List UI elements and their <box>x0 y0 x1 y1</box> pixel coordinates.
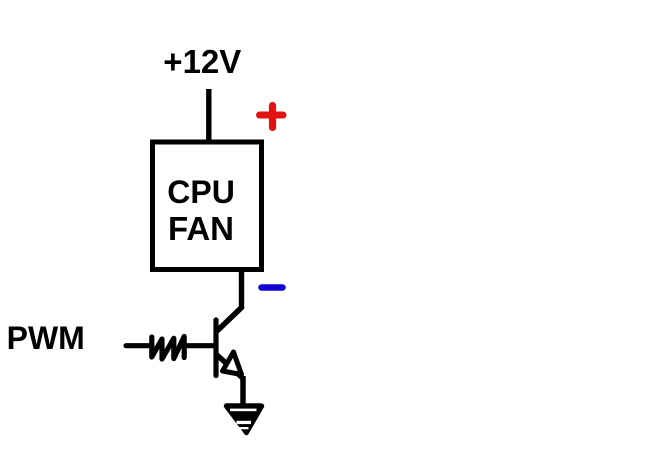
svg-text:FAN: FAN <box>168 210 234 247</box>
svg-text:+12V: +12V <box>163 43 241 80</box>
svg-text:CPU: CPU <box>167 174 235 210</box>
svg-text:PWM: PWM <box>7 320 85 356</box>
